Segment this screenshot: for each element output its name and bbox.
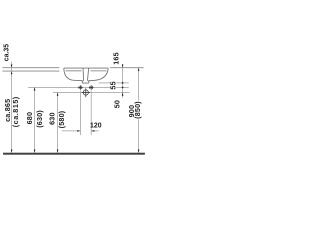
drain symbol circle with crosshair <box>82 88 90 97</box>
chain dot row A <box>122 82 124 84</box>
120 extension line right (from right tap cross) <box>90 91 92 136</box>
basin rim top line <box>64 67 108 69</box>
basin bowl outline right <box>89 68 108 81</box>
chain dot row B <box>122 87 124 89</box>
dimension line 630 vertical <box>57 93 59 153</box>
arrow up to counter bottom <box>11 71 13 74</box>
floor line <box>3 153 145 155</box>
svg-text:55: 55 <box>109 81 118 89</box>
overflow column / drain stub <box>82 68 89 83</box>
tap hole cross right <box>89 85 94 90</box>
dimension line 900 vertical (broken at text) <box>138 68 140 101</box>
chain dimension line right (165/55/50) <box>122 64 124 98</box>
tap hole cross left <box>78 85 83 90</box>
svg-text:ca.35: ca.35 <box>4 44 11 61</box>
svg-text:630: 630 <box>47 112 56 125</box>
svg-text:(580): (580) <box>57 110 66 128</box>
basin bowl outline left <box>64 68 83 81</box>
reference row C (drain centre line) <box>53 92 130 94</box>
arrow down to counter line (165) <box>122 65 124 68</box>
120 dimension arrow left <box>62 130 80 132</box>
reference row B (tap hole centre line) <box>28 87 129 89</box>
svg-text:(ca.815): (ca.815) <box>11 96 20 127</box>
dimension line ca.35 / ca.865 vertical <box>11 62 13 153</box>
counter top line right section <box>110 67 144 69</box>
reference row A (drain stub bottom extension) <box>99 82 129 84</box>
counter top double line left section <box>2 68 59 71</box>
svg-text:(630): (630) <box>35 110 44 128</box>
basin rim inner line <box>66 70 107 72</box>
svg-text:120: 120 <box>90 123 102 130</box>
dimension line 680 vertical <box>34 87 36 152</box>
svg-text:680: 680 <box>25 112 34 125</box>
svg-text:50: 50 <box>113 100 122 108</box>
120 dimension arrow right <box>91 130 99 132</box>
arrow down to floor (ca.865) <box>11 150 13 153</box>
arrow down to counter top <box>11 65 13 68</box>
120 extension line left (from left tap cross) <box>79 91 81 136</box>
svg-text:165: 165 <box>112 52 121 65</box>
svg-text:(850): (850) <box>133 101 142 119</box>
arrow up to row C (50) <box>122 93 124 96</box>
